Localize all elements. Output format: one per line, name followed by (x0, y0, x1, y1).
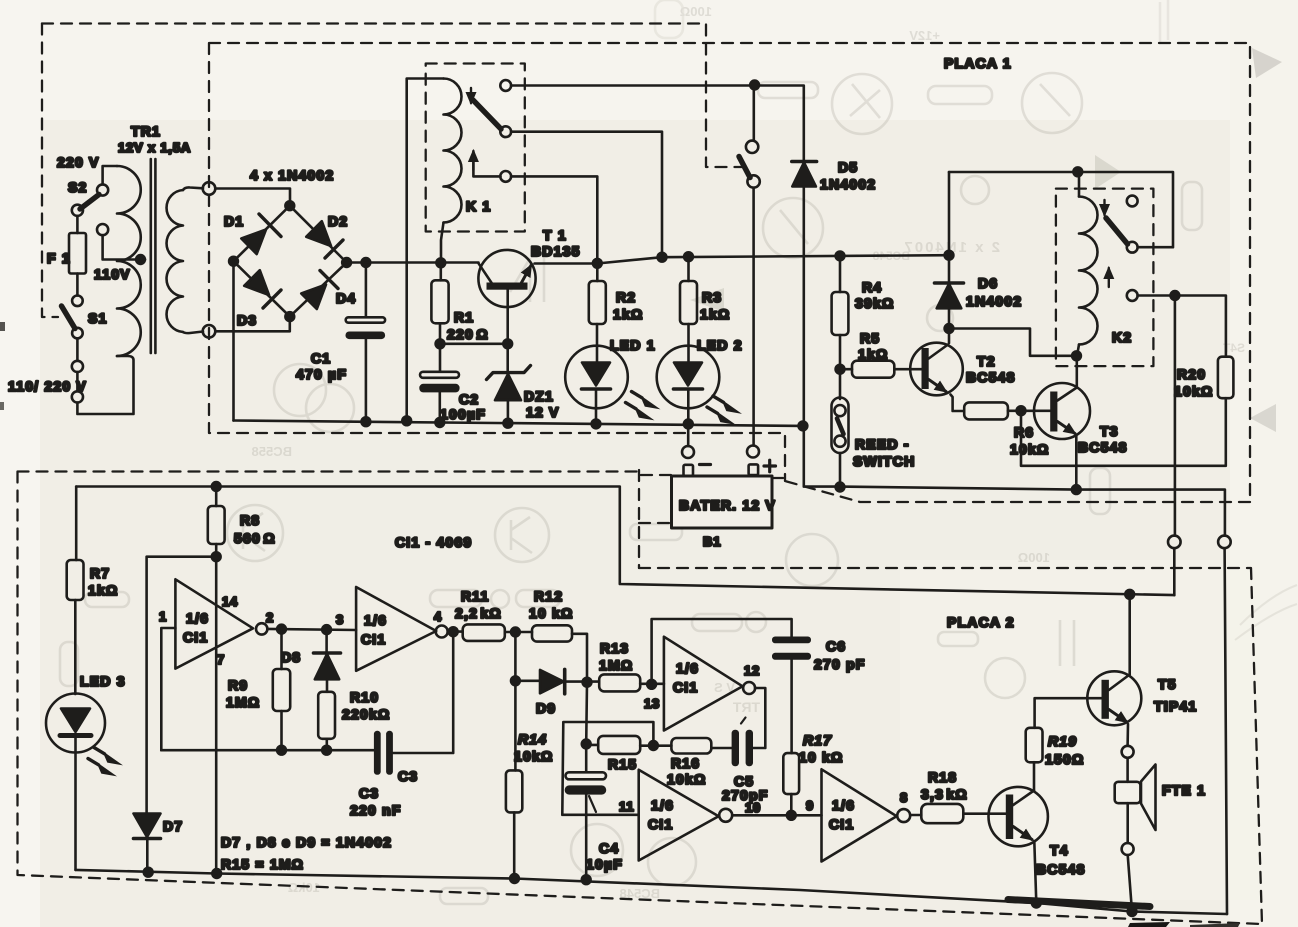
svg-text:BC548: BC548 (1036, 861, 1086, 877)
inverter gate E (822, 769, 897, 861)
svg-text:12: 12 (744, 663, 760, 678)
node K1 contact top (500, 80, 511, 91)
node connector pin A (1168, 536, 1181, 549)
svg-text:100µF: 100µF (440, 406, 486, 422)
svg-text:1/6: 1/6 (676, 660, 699, 676)
svg-text:TIP41: TIP41 (1154, 698, 1197, 714)
svg-text:C6: C6 (826, 638, 846, 654)
node terminal (72, 361, 83, 372)
wire T2 emitter to R6 (951, 395, 965, 412)
svg-text:R18: R18 (928, 769, 957, 785)
page bottom-right dark edge (1008, 900, 1150, 907)
svg-text:T5: T5 (1158, 676, 1177, 692)
svg-text:10 kΩ: 10 kΩ (799, 749, 843, 765)
wire connector B to PLACA2 ground rail (1225, 548, 1227, 914)
wire C6 to R17 (790, 660, 793, 753)
svg-text:4 x 1N4002: 4 x 1N4002 (250, 167, 334, 183)
svg-text:CI1: CI1 (673, 679, 698, 695)
wire S1 to terminals (76, 338, 79, 360)
svg-text:C3: C3 (359, 785, 379, 801)
wire K2 coil bottom (1077, 345, 1079, 356)
svg-text:R13: R13 (600, 640, 629, 656)
wire secondary top to terminal (183, 187, 203, 190)
wire F1 to S1 (76, 274, 79, 296)
wire R4 to R5/REED node (839, 335, 842, 399)
svg-text:1kΩ: 1kΩ (88, 582, 118, 598)
wire R15 left junction (586, 744, 598, 747)
wire K1 bottom contact down to R2 node (511, 176, 597, 262)
svg-text:1/6: 1/6 (651, 797, 674, 813)
svg-text:1/6: 1/6 (832, 797, 855, 813)
wire R12 right to R13 node (572, 634, 587, 683)
wire K1 middle contact to emitter rail (511, 132, 662, 258)
relay K2 coil (1079, 197, 1098, 345)
svg-text:C4: C4 (599, 840, 619, 856)
wire R6 to T3 base (1008, 409, 1050, 412)
wire R16 to R15 junction (640, 744, 671, 747)
relay K1 arm (473, 100, 501, 129)
svg-text:T3: T3 (1100, 423, 1119, 439)
node bridge bottom (285, 312, 294, 321)
wire R11 to R12 (505, 631, 532, 634)
wire K1 top contact to D5 / S3 (511, 86, 804, 161)
svg-text:39kΩ: 39kΩ (855, 295, 894, 311)
svg-text:+12V: +12V (909, 28, 940, 43)
wire K2 contact net down to connector (1174, 296, 1177, 536)
svg-text:100Ω: 100Ω (1018, 550, 1050, 565)
svg-text:BC548: BC548 (1078, 439, 1128, 455)
svg-text:T2: T2 (977, 353, 996, 369)
svg-text:2,2 kΩ: 2,2 kΩ (455, 605, 502, 621)
svg-text:220 Ω: 220 Ω (447, 326, 489, 342)
wire T3 emitter to 0V (1075, 436, 1078, 490)
svg-text:10 kΩ: 10 kΩ (529, 605, 573, 621)
node 110V tap terminal (97, 224, 108, 235)
inverter gate C (664, 637, 743, 731)
wire C3 to pin4 node (393, 632, 453, 753)
relay K1 coil (444, 79, 462, 223)
svg-text:TR1: TR1 (131, 123, 161, 139)
svg-text:PLACA 2: PLACA 2 (947, 614, 1015, 630)
svg-text:1: 1 (159, 609, 167, 624)
svg-text:R5: R5 (860, 330, 880, 346)
svg-text:100Ω: 100Ω (680, 4, 712, 19)
wire gate E output to R18 (910, 814, 921, 817)
svg-text:R4: R4 (862, 279, 882, 295)
wire reed bottom to 0V (839, 453, 842, 487)
svg-text:CI1 - 4069: CI1 - 4069 (395, 534, 472, 550)
LED2 light arrows (713, 396, 724, 402)
wire gate D output to gate E (732, 814, 821, 817)
svg-text:LED 3: LED 3 (80, 673, 126, 689)
node secondary terminal bottom (203, 325, 216, 338)
wire +12V rail from bridge to T1 collector (347, 261, 479, 264)
svg-text:270 pF: 270 pF (814, 656, 866, 672)
wire K1 coil bottom to +12V rail (441, 223, 444, 263)
svg-text:R15: R15 (608, 756, 637, 772)
wire emitter rail (535, 255, 950, 263)
switch S3 (battery feed) (746, 141, 758, 153)
svg-text:R1: R1 (454, 309, 474, 325)
svg-text:BC558: BC558 (252, 444, 292, 459)
svg-text:C3: C3 (398, 768, 418, 784)
svg-text:R2: R2 (616, 289, 636, 305)
LED3 light arrows (94, 748, 105, 754)
svg-text:150Ω: 150Ω (1045, 751, 1084, 767)
svg-text:K2: K2 (1112, 329, 1132, 345)
wire pin13 node to C6 (652, 619, 792, 684)
svg-text:DZ1: DZ1 (524, 388, 554, 404)
svg-text:B1: B1 (703, 534, 721, 549)
svg-text:D9: D9 (536, 700, 556, 716)
wire R12/D9 node to R15 node to C4 (585, 683, 588, 772)
svg-text:10: 10 (745, 800, 761, 815)
svg-text:R19: R19 (1048, 733, 1077, 749)
wire R8 bottom through gate to ground (215, 544, 218, 874)
relay K1 actuation arrow (473, 152, 500, 176)
wire gate A input (161, 628, 175, 750)
LED1 light arrows (632, 392, 643, 398)
svg-text:1/6: 1/6 (364, 612, 387, 628)
svg-text:CI1: CI1 (361, 631, 386, 647)
transformer core (150, 159, 153, 353)
svg-text:D7 , D8 e D9 = 1N4002: D7 , D8 e D9 = 1N4002 (221, 834, 392, 850)
svg-text:C1: C1 (311, 350, 331, 366)
node secondary terminal top (203, 182, 216, 195)
battery / PLACA 2 dashed step (639, 470, 786, 568)
node K2 contact bottom (1127, 290, 1138, 301)
svg-text:S2: S2 (68, 179, 88, 195)
wire gate C output to C5 (753, 688, 765, 748)
transformer TR1 secondary winding (167, 190, 183, 332)
relay K2 actuation arrow (1108, 268, 1110, 287)
node K2 contact top (1127, 196, 1138, 207)
svg-text:10kΩ: 10kΩ (288, 880, 320, 895)
svg-text:8: 8 (900, 790, 908, 805)
wire D5 down to 0V corner (804, 187, 840, 487)
svg-text:13: 13 (644, 696, 660, 711)
svg-text:1kΩ: 1kΩ (613, 306, 643, 322)
wire LED3 to ground rail (74, 753, 77, 870)
svg-text:220 V: 220 V (57, 154, 100, 170)
svg-text:R11: R11 (461, 588, 490, 604)
svg-text:CI1: CI1 (183, 629, 208, 645)
wire oscillator feedback bus (161, 749, 373, 752)
wire T5 emitter to speaker (1126, 724, 1129, 746)
svg-text:10kΩ: 10kΩ (667, 771, 706, 787)
wire D6 anode to T2 collector and K2 coil (949, 308, 1077, 356)
svg-text:12V x 1,5A: 12V x 1,5A (118, 140, 191, 155)
wire D7 branch (147, 557, 217, 813)
wire R17 to pin10 line (790, 794, 793, 815)
relay K2 dashed box (1056, 189, 1154, 367)
wire S2 to F1 (76, 216, 79, 233)
svg-text:9: 9 (806, 798, 814, 813)
svg-text:BC548: BC548 (966, 369, 1016, 385)
svg-text:R16: R16 (671, 755, 700, 771)
svg-text:3,3 kΩ: 3,3 kΩ (921, 786, 968, 802)
transformer TR1 primary winding (117, 166, 141, 356)
wire R13 to gate C input (640, 682, 664, 685)
svg-text:F 1: F 1 (47, 250, 71, 266)
wire bridge negative to 0V rail (232, 261, 235, 420)
svg-text:1MΩ: 1MΩ (599, 657, 633, 673)
wire R20 bottom to T3 base (1021, 398, 1226, 466)
wire S3 to battery plus (752, 188, 755, 446)
wire T4 collector to R19 (1033, 762, 1036, 790)
wire 0V rail (PLACA1 bottom) (234, 421, 803, 426)
svg-text:R6: R6 (1014, 424, 1034, 440)
svg-text:TRT: TRT (732, 699, 760, 715)
svg-text:R7: R7 (90, 565, 110, 581)
svg-text:T4: T4 (1050, 842, 1069, 858)
wire K2 coil top (1078, 172, 1081, 197)
wire PLACA2 ground rail (76, 870, 1228, 914)
svg-text:K 1: K 1 (466, 198, 491, 214)
wire D9 to R13 (565, 680, 600, 683)
svg-text:10kΩ: 10kΩ (1010, 441, 1049, 457)
wire R18 to T4 base (963, 812, 1006, 815)
inverter gate A (175, 579, 253, 668)
node K1 contact middle (500, 126, 511, 137)
outer mains dashed enclosure (42, 24, 745, 318)
wire R14 tap (514, 632, 517, 681)
wire T3 collector to K2 coil (1076, 356, 1079, 388)
wire connector A to PLACA2 feed (1173, 548, 1176, 595)
svg-text:R3: R3 (702, 289, 722, 305)
node K2 contact middle (1127, 242, 1138, 253)
wire R1 bottom to T1 base (440, 323, 508, 344)
wire PLACA2 +12V distribution (76, 487, 1174, 596)
node connector pin B (1218, 536, 1231, 549)
wire T1 base (506, 290, 509, 344)
svg-text:1MΩ: 1MΩ (226, 694, 260, 710)
wire R19 to T5 base (1035, 698, 1102, 728)
wire 220V to primary (103, 166, 117, 184)
svg-text:R15 = 1MΩ: R15 = 1MΩ (221, 856, 304, 872)
wire D6 node to K2 common (949, 172, 1173, 247)
inverter gate D (639, 770, 719, 861)
svg-text:1N4002: 1N4002 (966, 293, 1022, 309)
wire secondary to bridge AC bottom (215, 317, 289, 331)
wire pin11 detour loop (562, 722, 653, 815)
svg-text:R20: R20 (1177, 366, 1206, 382)
svg-text:CI1: CI1 (648, 816, 673, 832)
svg-text:10µF: 10µF (586, 856, 623, 872)
svg-text:220kΩ: 220kΩ (342, 706, 390, 722)
wire mains return to primary bottom (77, 356, 133, 414)
node K1 contact bottom (500, 171, 511, 182)
wire gate A output (pin 2) (267, 629, 356, 630)
svg-text:D5: D5 (838, 159, 858, 175)
svg-text:1kΩ: 1kΩ (700, 306, 730, 322)
svg-text:14: 14 (222, 594, 238, 609)
svg-text:SWITCH: SWITCH (853, 453, 915, 469)
svg-text:11: 11 (619, 799, 634, 814)
node bridge top (285, 201, 294, 210)
svg-text:110V: 110V (94, 266, 131, 282)
svg-text:PLACA 1: PLACA 1 (944, 55, 1012, 71)
wire C5 to R16 (711, 747, 731, 750)
svg-text:12 V: 12 V (526, 404, 560, 420)
relay K2 arm (1106, 218, 1128, 244)
svg-text:BATER. 12 V: BATER. 12 V (679, 497, 776, 513)
wire secondary to bridge AC top (215, 189, 290, 206)
svg-text:CI1: CI1 (829, 816, 854, 832)
svg-text:2: 2 (266, 610, 274, 625)
svg-text:D6: D6 (978, 275, 998, 291)
svg-text:1/6: 1/6 (186, 610, 209, 626)
svg-text:D7: D7 (163, 818, 183, 834)
wire T5 collector to +12V feed (1128, 594, 1131, 674)
svg-text:D8: D8 (281, 649, 301, 665)
svg-text:D2: D2 (328, 213, 348, 229)
svg-text:FTE 1: FTE 1 (1162, 782, 1206, 798)
svg-text:R14: R14 (518, 731, 547, 747)
svg-text:4: 4 (434, 609, 442, 624)
svg-text:560 Ω: 560 Ω (234, 530, 276, 546)
node bridge left (229, 257, 238, 266)
wire 0V rail right section (840, 487, 1225, 536)
svg-text:D4: D4 (336, 290, 356, 306)
svg-text:1N4002: 1N4002 (820, 176, 876, 192)
svg-text:S1: S1 (88, 310, 108, 326)
svg-text:D3: D3 (237, 312, 257, 328)
svg-text:R10: R10 (350, 689, 379, 705)
svg-text:7: 7 (217, 652, 225, 667)
inverter gate B (356, 587, 436, 671)
svg-text:T 1: T 1 (543, 227, 567, 243)
svg-text:470 µF: 470 µF (296, 366, 347, 382)
node bridge right (342, 258, 351, 267)
svg-text:R17: R17 (803, 732, 832, 748)
svg-text:D1: D1 (224, 213, 244, 229)
svg-text:LED 1: LED 1 (610, 337, 656, 353)
bridge diamond wires (234, 206, 347, 317)
scan-edge marks (0, 322, 5, 331)
svg-text:R9: R9 (228, 677, 248, 693)
svg-text:R12: R12 (534, 588, 563, 604)
wire gate B output (448, 630, 463, 633)
wire T4 emitter to ground rail (1034, 841, 1036, 903)
wire K1 coil top to 0V (407, 79, 444, 421)
PLACA 1 dashed border (209, 43, 1250, 502)
wire K2 bottom contact to R20 (1138, 296, 1226, 357)
svg-text:220 nF: 220 nF (350, 802, 402, 818)
svg-text:R8: R8 (240, 512, 260, 528)
wire secondary bottom to terminal (183, 332, 203, 334)
svg-text:C2: C2 (459, 391, 479, 407)
svg-text:3: 3 (336, 612, 344, 627)
svg-text:10kΩ: 10kΩ (514, 748, 553, 764)
svg-text:BD135: BD135 (531, 243, 581, 259)
svg-text:10kΩ: 10kΩ (1174, 383, 1213, 399)
svg-text:REED -: REED - (855, 436, 910, 452)
relay K1 dashed box (426, 64, 525, 232)
wire 110V tap (103, 235, 145, 259)
PLACA 2 dashed border (18, 472, 1263, 925)
